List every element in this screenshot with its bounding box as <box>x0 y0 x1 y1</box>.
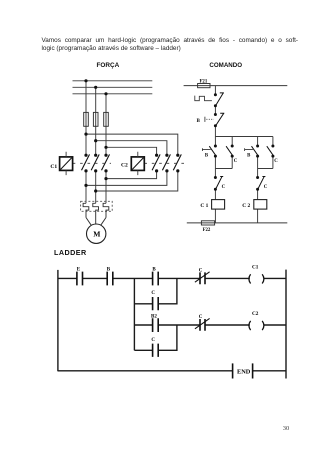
wire column 1 lower <box>85 171 87 203</box>
wire column 1 upper <box>85 81 87 155</box>
pushbutton E blade <box>215 93 224 106</box>
ladder right rail <box>285 270 287 379</box>
node C1 contact bottoms <box>84 169 87 172</box>
heater element 3 <box>103 203 109 217</box>
svg-text:B: B <box>152 268 156 273</box>
wire to E button <box>214 86 216 95</box>
node col2 merge <box>94 189 97 192</box>
svg-text:M: M <box>93 230 100 239</box>
fuse F21 <box>198 84 210 88</box>
svg-text:C 1: C 1 <box>200 203 208 209</box>
node B bottom <box>214 124 217 127</box>
branch rail <box>215 136 273 138</box>
fuse F22 <box>201 221 214 225</box>
NC slash rung2 <box>195 318 210 328</box>
wire auxC1 to coil C1 <box>214 189 216 199</box>
contact K2 blade c <box>173 154 181 170</box>
svg-text:C: C <box>151 291 155 296</box>
contactor coil C2 <box>131 152 144 175</box>
contact K1 blade c <box>102 154 110 170</box>
contact B seal bars <box>153 272 159 286</box>
svg-text:C 2: C 2 <box>242 203 250 209</box>
actuator B head <box>204 117 206 122</box>
svg-text:C: C <box>199 315 203 320</box>
branch drop 3 <box>257 137 259 147</box>
svg-text:C1: C1 <box>50 164 57 170</box>
rung1 wire segments <box>58 277 286 279</box>
node branch1 bottom <box>214 155 217 158</box>
branch drop 4 <box>272 137 274 147</box>
wire column 3 lower <box>105 171 107 203</box>
crossover wire phase1 to C2 right contact <box>86 134 178 155</box>
svg-text:C: C <box>199 268 203 273</box>
contact C23 blade <box>267 146 274 156</box>
svg-text:F22: F22 <box>203 228 211 233</box>
fuse F3 <box>104 112 109 126</box>
node branch2 top <box>231 145 234 148</box>
svg-text:C1: C1 <box>252 265 259 271</box>
node col3 feed <box>104 146 107 149</box>
contact K2 blade a <box>152 154 160 170</box>
END left bar <box>232 363 234 378</box>
wire coil C1 to return rail <box>214 209 216 223</box>
phase line L3 <box>73 93 153 95</box>
branch1 wire <box>134 278 177 303</box>
crossover wire phase3 to C2 left contact <box>106 147 157 155</box>
node branch2 bottom <box>231 155 234 158</box>
crossover wire C2 left contact output to column 3 <box>106 171 157 179</box>
node L3-col3 <box>104 92 107 95</box>
node auxC2 top <box>256 176 259 179</box>
node branch3 bottom <box>256 155 259 158</box>
overload relay dashed box <box>81 201 113 211</box>
crossover wire C2 right contact output to column 2 <box>96 171 178 191</box>
node branch1 top <box>214 145 217 148</box>
node L1-col1 <box>84 79 87 82</box>
wire E to B button <box>214 106 216 115</box>
node C2 contact tops <box>155 154 158 157</box>
contact C NC rung1 bars <box>200 272 205 284</box>
svg-text:C: C <box>151 338 155 343</box>
heater element 1 <box>83 203 89 217</box>
contact B bars <box>107 272 113 286</box>
actuator E <box>195 96 212 101</box>
motor lead left <box>86 218 91 226</box>
page number 30 <box>283 425 290 432</box>
fuse F1 <box>84 112 89 126</box>
svg-text:END: END <box>237 368 251 375</box>
svg-text:C: C <box>264 185 268 190</box>
svg-text:C: C <box>222 185 226 190</box>
crossover wire phase2 to C2 middle contact <box>96 141 167 156</box>
svg-text:B2: B2 <box>151 314 157 319</box>
svg-text:C2: C2 <box>252 311 259 317</box>
node E top <box>214 93 217 96</box>
node L2-col2 <box>94 86 97 89</box>
heading COMANDO <box>209 62 242 69</box>
contact C branch2 bars <box>153 344 159 357</box>
contact B2 blade <box>252 146 259 156</box>
junction drop wire <box>133 278 135 350</box>
node col3 merge <box>104 177 107 180</box>
node col1 feed <box>84 133 87 136</box>
wire column 2 upper <box>95 87 97 155</box>
svg-text:B: B <box>247 154 251 159</box>
node col2 feed <box>94 139 97 142</box>
contact auxC1 blade <box>216 177 223 189</box>
coil C2 parens <box>249 321 264 330</box>
node C1 contact tops <box>84 154 87 157</box>
svg-text:C: C <box>274 159 278 164</box>
phase line L1 <box>73 80 153 82</box>
left pair merge wire <box>215 156 232 177</box>
wire column 3 upper <box>105 94 107 155</box>
heater element 2 <box>93 203 99 217</box>
paragraph text <box>42 37 299 53</box>
contact C13 blade <box>226 146 233 156</box>
contact K1 blade b <box>91 154 99 170</box>
linkage dashed C1 <box>73 162 111 164</box>
wire auxC2 to coil C2 <box>257 189 259 199</box>
end rung wire <box>58 370 286 372</box>
fuse F2 <box>93 112 98 126</box>
motor lead right <box>101 218 106 226</box>
control supply line <box>184 85 288 87</box>
svg-text:B: B <box>197 119 201 124</box>
pushbutton B blade <box>215 113 224 126</box>
svg-text:C2: C2 <box>121 162 128 168</box>
rung2 wire segments <box>134 324 286 326</box>
contact C branch1 bars <box>153 297 159 310</box>
wire column 2 lower <box>95 171 97 203</box>
actuator B1 <box>202 148 210 151</box>
crossover wire C2 middle contact output to column 1 <box>86 171 167 186</box>
coil C1 <box>212 200 225 210</box>
node col1 merge <box>84 184 87 187</box>
coil C1 parens <box>249 274 264 283</box>
svg-text:B: B <box>107 268 111 273</box>
node auxC1 top <box>214 176 217 179</box>
right pair merge wire <box>258 156 273 177</box>
branch2 wire <box>134 325 177 350</box>
actuator B2 <box>245 148 253 151</box>
phase line L2 <box>73 86 153 88</box>
END right bar <box>252 363 254 378</box>
ladder left rail <box>57 270 59 371</box>
motor M1 <box>87 224 106 243</box>
contact auxC2 blade <box>258 177 265 189</box>
contact C NC rung2 bars <box>200 319 205 331</box>
node C2 contact bottoms <box>155 169 158 172</box>
linkage dashed C2 <box>144 162 184 164</box>
contactor coil C1 <box>60 152 73 175</box>
heading LADDER <box>54 248 87 257</box>
svg-text:F21: F21 <box>200 79 208 84</box>
contact K2 blade b <box>162 154 170 170</box>
node B top <box>214 113 217 116</box>
wire B to rail <box>214 126 216 137</box>
node E bottom <box>214 104 217 107</box>
wire coil C2 to return rail <box>257 209 259 223</box>
actuator B dotted link <box>206 118 213 120</box>
node branch3 top <box>256 145 259 148</box>
svg-text:C: C <box>234 159 238 164</box>
NC slash rung1 <box>195 272 210 282</box>
node branch4 bottom <box>271 155 274 158</box>
node auxC1 bottom <box>214 188 217 191</box>
branch drop 2 <box>231 137 233 147</box>
contact E bars <box>77 272 83 286</box>
contact K1 blade a <box>82 154 90 170</box>
svg-text:B: B <box>205 154 209 159</box>
node branch4 top <box>271 145 274 148</box>
branch drop 1 <box>214 137 216 147</box>
coil C2 <box>254 200 267 210</box>
contact B2 bars <box>153 318 159 332</box>
svg-text:E: E <box>77 268 81 273</box>
contact B1 blade <box>209 146 216 156</box>
node auxC2 bottom <box>256 188 259 191</box>
motor lead centre <box>95 218 97 225</box>
heading FORÇA <box>97 62 120 69</box>
return rail <box>187 222 287 224</box>
